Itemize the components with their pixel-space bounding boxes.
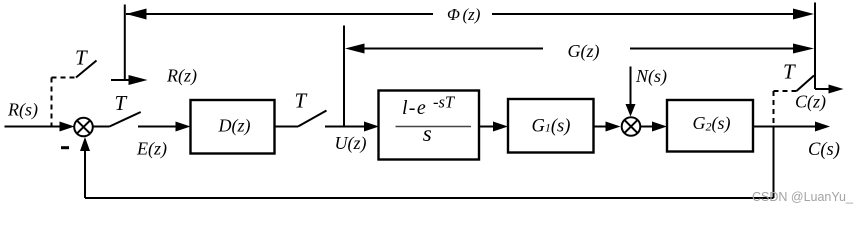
svg-text:R(s): R(s) xyxy=(7,99,38,120)
wire: feedback vertical right xyxy=(773,127,775,199)
svg-text:T: T xyxy=(783,60,796,84)
arrowhead: Phi(z) right xyxy=(793,9,814,20)
svg-text:N(s): N(s) xyxy=(635,66,667,87)
block G1(s) xyxy=(508,99,594,153)
wire: Phi(z) line right segment xyxy=(492,13,804,15)
arrowhead: U(z) into ZOH xyxy=(364,122,379,132)
wire: sum2 to G2 xyxy=(641,126,656,128)
svg-text:T: T xyxy=(115,91,128,115)
wire: feedback vertical left xyxy=(84,147,86,198)
svg-text:Φ(z): Φ(z) xyxy=(447,5,481,24)
svg-text:l-e: l-e xyxy=(402,97,426,119)
arrowhead: E(z) into D(z) xyxy=(176,122,191,132)
block D(z) xyxy=(191,100,275,154)
svg-text:U(z): U(z) xyxy=(335,133,367,154)
wire: G1 to sum2 xyxy=(594,126,611,128)
sampler S4 switch arm xyxy=(797,76,815,92)
wire: feedback bottom horizontal xyxy=(85,197,774,199)
svg-text:T: T xyxy=(295,89,308,113)
svg-text:C(z): C(z) xyxy=(795,91,826,112)
wire: D(z) to sampler S3 xyxy=(275,126,299,128)
arrowhead: G(z) right xyxy=(793,44,814,54)
svg-text:CSDN @LuanYu_: CSDN @LuanYu_ xyxy=(752,190,854,204)
wire: sum1 to sampler S2 xyxy=(93,126,109,128)
summing junction sum2 xyxy=(622,117,641,136)
arrowhead: sum2 into G2 xyxy=(652,122,667,132)
sampler S1 switch arm xyxy=(76,61,97,78)
arrowhead: into G1 xyxy=(493,122,508,132)
svg-text:C(s): C(s) xyxy=(808,140,840,160)
wire: C(z) arrow line xyxy=(815,88,833,90)
arrowhead: input to sum1 xyxy=(60,122,75,132)
svg-text:s: s xyxy=(423,121,432,146)
arrowhead: R(z) xyxy=(129,75,148,85)
wire: ZOH to G1 xyxy=(479,126,497,128)
sampler S4 dashed horizontal xyxy=(774,90,797,92)
sampler S4 dashed vertical xyxy=(773,91,775,125)
arrowhead: G(z) left xyxy=(345,44,365,54)
arrowhead: Phi(z) left xyxy=(126,9,147,20)
label minus xyxy=(61,146,69,149)
wire: U(z) arrow to ZOH xyxy=(325,126,368,128)
summing junction sum1 xyxy=(74,118,93,137)
arrowhead: feedback into sum1 xyxy=(80,137,90,151)
sampler S1 dashed horizontal xyxy=(52,77,77,79)
block ZOH xyxy=(379,91,480,160)
svg-text:D(z): D(z) xyxy=(218,115,251,136)
wire: N(s) vertical xyxy=(630,67,632,106)
arrowhead: C(z) xyxy=(829,85,844,94)
sampler S2 switch arm xyxy=(110,112,141,127)
sampler S3 switch arm xyxy=(298,111,327,127)
block G2(s) xyxy=(667,100,753,152)
arrowhead: G1 into sum2 xyxy=(606,122,621,132)
wire: left vertical to R(z) xyxy=(124,5,126,81)
arrowhead: output C(s) xyxy=(815,122,830,132)
wire: right vertical line xyxy=(814,3,816,90)
sampler S1 dashed vertical xyxy=(51,78,53,127)
wire: G2 to output C(s) xyxy=(753,126,818,128)
wire: U(z) vertical xyxy=(343,26,345,127)
wire: G(z) line right segment xyxy=(630,48,804,50)
svg-text:E(z): E(z) xyxy=(136,138,167,159)
svg-text:T: T xyxy=(75,46,88,70)
wire: input R(s) line xyxy=(5,126,63,128)
wire: G(z) line left segment xyxy=(355,48,543,50)
ZOH fraction bar xyxy=(396,126,472,128)
arrowhead: N(s) into sum2 xyxy=(626,104,636,117)
svg-text:-sT: -sT xyxy=(433,93,456,112)
wire: Phi(z) line left segment xyxy=(126,13,433,15)
wire: E(z) arrow to D(z) xyxy=(138,126,179,128)
svg-text:G1(s): G1(s) xyxy=(532,117,571,137)
svg-text:G2(s): G2(s) xyxy=(693,113,731,134)
svg-text:G(z): G(z) xyxy=(568,41,600,62)
wire: R(z) arrow line xyxy=(111,79,136,81)
svg-text:R(z): R(z) xyxy=(166,66,197,87)
